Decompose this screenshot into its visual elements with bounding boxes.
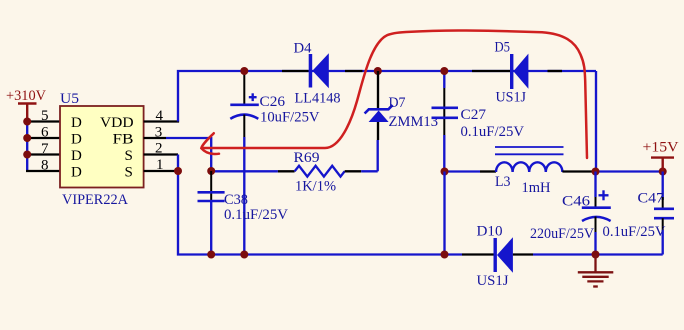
junction dot D4/D7 node (374, 67, 382, 75)
svg-text:C38: C38 (224, 192, 248, 208)
wire pin3 FB to C38 node (166, 138, 211, 171)
capacitor C46 top plate (582, 206, 611, 209)
svg-text:+15V: +15V (643, 140, 679, 156)
svg-text:D: D (71, 132, 82, 148)
junction dot S pins (174, 167, 182, 175)
resistor R69 left pin (278, 170, 295, 172)
inductor L3 right pin (562, 170, 594, 172)
junction dot C47 top (659, 168, 667, 176)
svg-text:D7: D7 (389, 95, 406, 111)
wire +310V vertical bus to pins 5,6,7,8 (26, 122, 28, 172)
zener D7 triangle (369, 111, 389, 123)
diode D10 cathode bar (494, 238, 497, 272)
capacitor C46 curved plate (582, 217, 611, 221)
wire FB node to R69 (211, 170, 278, 172)
capacitor C47 bottom lead (662, 218, 664, 230)
svg-text:L3: L3 (495, 174, 511, 190)
wire C27 node to L3 (444, 170, 480, 172)
svg-text:D4: D4 (294, 41, 312, 57)
inductor L3 core lines (495, 146, 564, 148)
capacitor C27 top plate (432, 107, 459, 110)
svg-text:1K/1%: 1K/1% (295, 179, 336, 195)
capacitor C26 top lead (243, 71, 245, 105)
zener D7 cathode bar with tails (365, 105, 393, 113)
svg-text:D5: D5 (495, 40, 511, 56)
node +15V power symbol (651, 158, 674, 172)
svg-text:6: 6 (41, 125, 49, 141)
svg-text:S: S (125, 148, 133, 164)
diode D4 right pin (345, 70, 363, 72)
ground symbol (578, 255, 614, 287)
capacitor C38 bottom plate (198, 200, 225, 203)
svg-text:8: 8 (41, 158, 49, 174)
inductor L3 windings (496, 162, 562, 172)
junction dot pin5 (23, 118, 31, 126)
op IC U5 VIPER22A body (60, 106, 144, 188)
capacitor C27 lead (443, 71, 445, 88)
svg-text:D: D (71, 148, 82, 164)
resistor R69 zigzag (295, 166, 345, 177)
svg-text:VIPER22A: VIPER22A (62, 192, 128, 208)
svg-text:LL4148: LL4148 (295, 91, 341, 107)
wire pin8 (26, 170, 60, 172)
wire L3 node down to bottom rail (443, 172, 445, 255)
capacitor C46 bottom lead (595, 217, 597, 233)
svg-text:U5: U5 (60, 91, 79, 107)
diode D5 left pin (472, 70, 510, 72)
diode D5 triangle (513, 54, 528, 89)
svg-text:0.1uF/25V: 0.1uF/25V (603, 224, 666, 240)
junction dot bottom rail at D10 (441, 251, 449, 259)
svg-text:0.1uF/25V: 0.1uF/25V (224, 207, 288, 223)
diode D4 cathode bar (309, 54, 313, 88)
inductor L3 left pin (480, 170, 496, 172)
wire pin5 (26, 120, 60, 122)
zener D7 bottom lead (377, 122, 379, 140)
wire pin7 (26, 153, 60, 155)
junction dot C46 top (592, 168, 600, 176)
svg-text:VDD: VDD (100, 115, 134, 131)
capacitor C27 bottom plate (432, 117, 459, 120)
wire D5 output down to C46 node (595, 71, 597, 172)
wire pin3 FB black stub (144, 137, 166, 139)
junction dot C26 bottom (240, 251, 248, 259)
junction dot C27 top (440, 67, 448, 75)
svg-text:+310V: +310V (6, 88, 46, 104)
svg-text:C47: C47 (638, 191, 665, 207)
junction dot FB node (207, 167, 215, 175)
node +310V power symbol (18, 104, 37, 123)
svg-text:C46: C46 (562, 194, 591, 210)
annotation red freehand arrow (201, 30, 587, 158)
junction dot C26 top (240, 67, 248, 75)
diode D10 left pin (462, 253, 494, 255)
junction dot C38 bottom (207, 251, 215, 259)
wire pin4 VDD (144, 120, 180, 122)
svg-text:C26: C26 (260, 94, 286, 110)
capacitor C38 bottom lead (210, 201, 212, 255)
capacitor C47 top plate (654, 208, 674, 211)
svg-text:S: S (125, 165, 133, 181)
capacitor C46 plus sign (599, 190, 609, 200)
diode D4 left pin (282, 70, 309, 72)
diode D5 cathode bar (510, 54, 513, 89)
svg-text:R69: R69 (294, 150, 320, 166)
wire output node to +15V/C47 (596, 170, 663, 172)
diode D10 triangle (497, 237, 513, 273)
svg-text:10uF/25V: 10uF/25V (260, 110, 320, 126)
wire bottom rail right segment (533, 253, 663, 255)
capacitor C38 top plate (198, 191, 225, 194)
svg-text:C27: C27 (461, 107, 487, 123)
svg-text:ZMM13: ZMM13 (389, 114, 439, 130)
diode D10 right pin (513, 253, 533, 255)
capacitor C47 bottom plate (654, 217, 674, 220)
capacitor C26 bottom lead to rail (243, 115, 245, 138)
capacitor C26 plus sign (249, 93, 257, 101)
wire pin6 (26, 137, 60, 139)
wire pin1 S (144, 170, 178, 172)
svg-text:7: 7 (41, 141, 49, 157)
capacitor C26 curved plate (230, 115, 258, 119)
capacitor C38 top lead (210, 171, 212, 202)
svg-text:5: 5 (41, 108, 49, 124)
diode D5 right pin (548, 70, 563, 72)
wire pin2 S (144, 153, 178, 155)
capacitor C47 top lead (662, 172, 664, 201)
junction dot pin6 (23, 134, 31, 142)
junction dot ground node (592, 251, 600, 259)
junction dot L3 left (441, 168, 449, 176)
svg-text:D10: D10 (477, 224, 503, 240)
wire R69 to D7 (361, 170, 378, 172)
capacitor C46 top lead (594, 172, 596, 198)
resistor R69 right pin (345, 170, 362, 172)
junction dot pin7 (23, 151, 31, 159)
svg-text:1mH: 1mH (522, 180, 551, 196)
zener D7 top lead (377, 71, 379, 109)
svg-text:D: D (71, 165, 82, 181)
svg-text:US1J: US1J (477, 273, 509, 289)
capacitor C26 top plate (230, 104, 258, 107)
svg-text:D: D (71, 115, 82, 131)
wire VDD riser to top rail (178, 71, 596, 122)
svg-text:0.1uF/25V: 0.1uF/25V (461, 124, 525, 140)
svg-text:US1J: US1J (496, 90, 527, 106)
diode D4 triangle (312, 53, 328, 88)
svg-text:220uF/25V: 220uF/25V (530, 226, 594, 242)
wire S pins down to bottom rail (178, 155, 462, 255)
svg-text:FB: FB (113, 132, 134, 148)
